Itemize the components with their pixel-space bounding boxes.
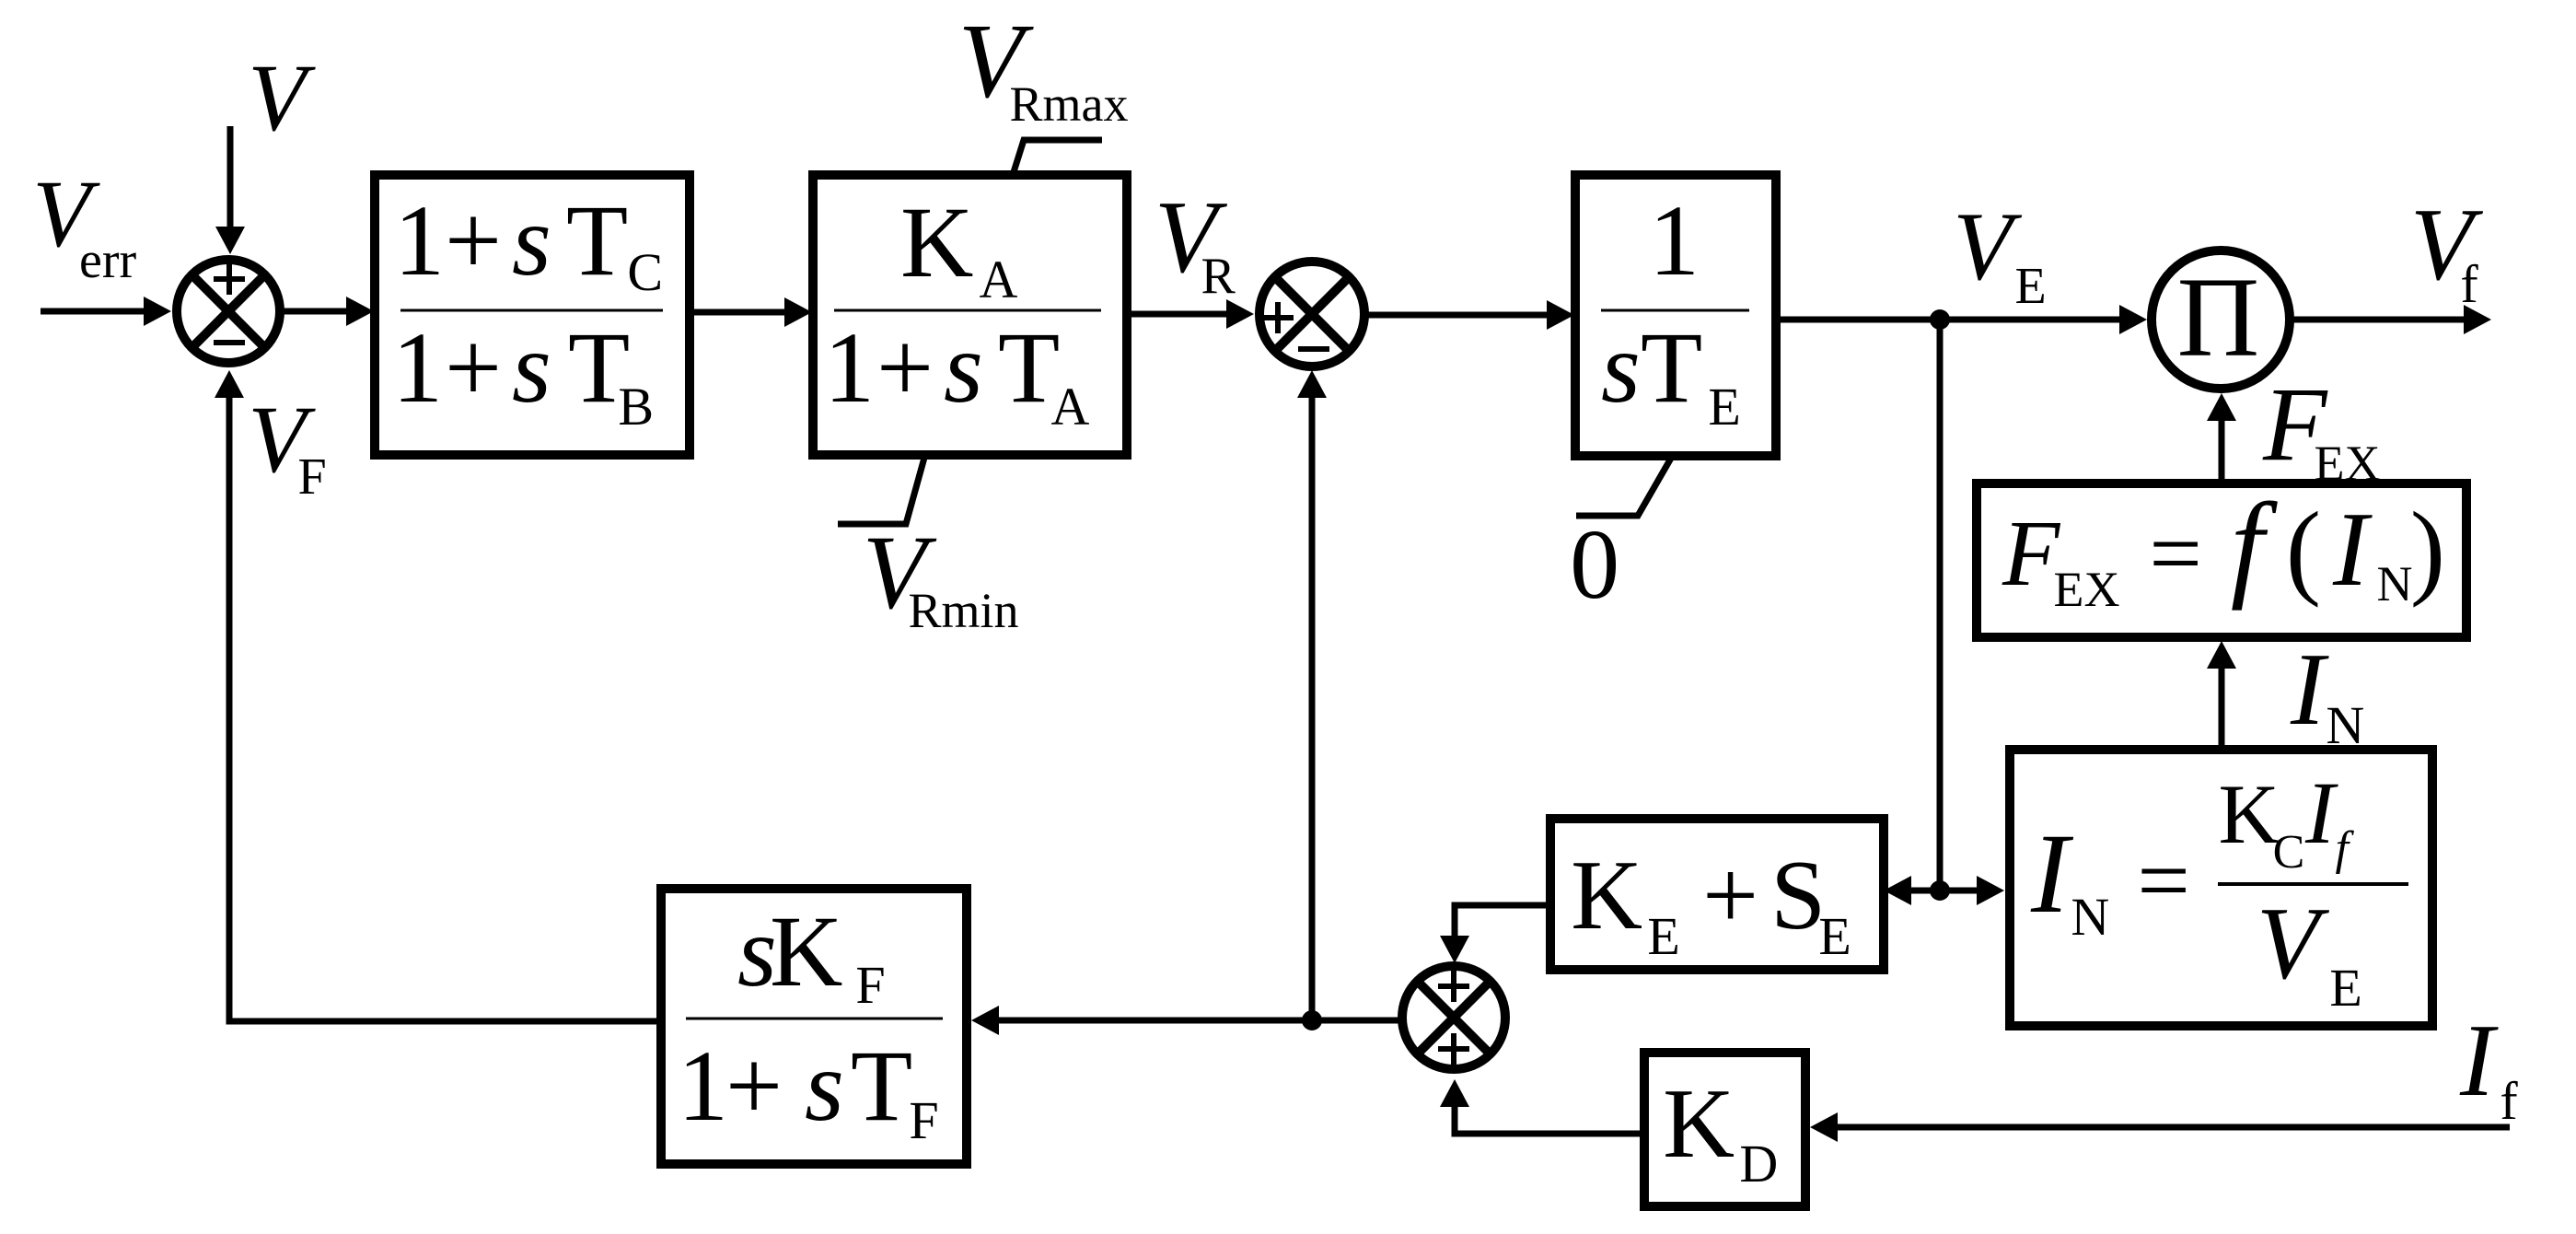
svg-text:1: 1 <box>1649 184 1700 297</box>
svg-text:0: 0 <box>1570 510 1619 620</box>
svg-text:1+sTF: 1+sTF <box>678 1030 939 1150</box>
svg-text:KE+SE: KE+SE <box>1571 841 1851 966</box>
svg-text:Π: Π <box>2177 254 2260 380</box>
svg-text:Vf: Vf <box>2410 188 2484 314</box>
svg-text:1+sTA: 1+sTA <box>824 311 1090 437</box>
svg-text:1+sTC: 1+sTC <box>394 184 663 302</box>
svg-text:1+sTB: 1+sTB <box>392 311 654 437</box>
svg-text:V: V <box>248 45 316 151</box>
